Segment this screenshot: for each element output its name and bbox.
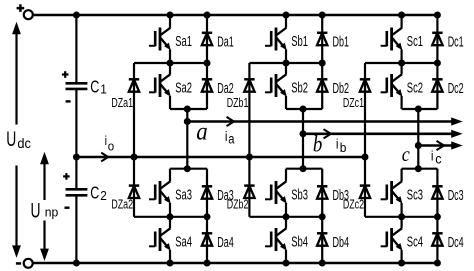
diode Dc1 <box>432 15 442 63</box>
svg-text:b: b <box>340 140 347 155</box>
transistor Sc4 <box>381 217 403 263</box>
svg-text:Sb4: Sb4 <box>291 233 308 250</box>
diode Db4 <box>317 217 327 263</box>
transistor Sa3 <box>149 169 171 217</box>
diode Db2 <box>317 63 327 109</box>
transistor Sb2 <box>265 63 287 109</box>
current arrow ib <box>324 129 332 138</box>
diode DZb2 <box>244 157 254 217</box>
wire: Sa1/Sa2 junction bracket <box>134 62 207 64</box>
svg-text:Sa2: Sa2 <box>175 79 192 96</box>
svg-text:DZc1: DZc1 <box>343 97 364 111</box>
junction dot (b lower, main) <box>283 213 290 220</box>
svg-text:DZa1: DZa1 <box>111 97 133 111</box>
junction dot (top rail / Dc1) <box>434 12 441 19</box>
label - (C2) <box>65 207 70 209</box>
junction dot (mid rail / clamp b) <box>246 154 253 161</box>
node c <box>415 142 422 149</box>
wire: neutral mid rail <box>76 156 365 159</box>
diode Dc3 <box>432 169 442 217</box>
junction: bottom rail / capacitor column <box>73 260 80 267</box>
wire: positive DC rail <box>33 14 439 17</box>
junction dot (a node bottom) <box>184 165 191 172</box>
junction dot (top rail / Sb1) <box>283 12 290 19</box>
junction dot (top rail / Sc1) <box>398 12 405 19</box>
transistor Sa4 <box>149 217 171 263</box>
diode DZa1 <box>129 63 139 157</box>
junction: top rail / capacitor column <box>73 12 80 19</box>
svg-text:dc: dc <box>17 136 31 151</box>
junction dot (b upper, diode) <box>319 60 326 67</box>
svg-text:Dc1: Dc1 <box>448 33 464 50</box>
transistor Sc2 <box>381 63 403 109</box>
svg-text:Sc1: Sc1 <box>407 33 423 50</box>
current arrow io <box>101 153 108 162</box>
transistor Sb1 <box>265 15 287 63</box>
junction dot (bottom rail / Dc4) <box>434 260 441 267</box>
junction dot (a upper, diode) <box>204 60 211 67</box>
wire: Sb2 emitter bracket <box>286 109 322 134</box>
current arrow ia <box>227 117 235 126</box>
diode Dc2 <box>432 63 442 109</box>
svg-text:c: c <box>402 143 410 167</box>
wire: Sb3/Sb4 junction bracket <box>249 216 322 218</box>
transistor Sc3 <box>381 169 403 217</box>
diode Dc4 <box>432 217 442 263</box>
wire: Sb3 collector bracket <box>286 168 322 170</box>
transistor Sb3 <box>265 169 287 217</box>
diode DZa2 <box>129 157 139 217</box>
wire: negative DC rail <box>32 262 438 265</box>
label + (C2) <box>63 173 70 180</box>
wire: node c column <box>417 146 419 169</box>
transistor Sc1 <box>381 15 403 63</box>
junction dot (top rail / Sa1) <box>167 12 174 19</box>
svg-text:Sb3: Sb3 <box>291 186 308 203</box>
wire: Sa3 collector bracket <box>170 168 207 170</box>
svg-text:U: U <box>31 199 41 223</box>
wire: Sb1/Sb2 junction bracket <box>249 62 322 64</box>
junction dot (b upper, main) <box>283 60 290 67</box>
svg-text:i: i <box>105 134 107 148</box>
junction: mid rail / capacitor column <box>73 154 80 161</box>
wire: phase b output line <box>303 130 463 138</box>
svg-text:DZb2: DZb2 <box>227 198 249 212</box>
wire: phase a output line <box>187 117 462 125</box>
diode DZc2 <box>360 157 370 217</box>
svg-text:Da4: Da4 <box>217 234 234 251</box>
junction dot (bottom rail / Db4) <box>319 260 326 267</box>
transistor Sa1 <box>149 15 171 63</box>
transistor Sb4 <box>265 217 287 263</box>
svg-text:2: 2 <box>100 189 107 203</box>
junction dot (a lower, diode) <box>204 213 211 220</box>
label - <box>16 262 21 265</box>
svg-text:1: 1 <box>100 82 107 96</box>
svg-text:b: b <box>313 131 322 157</box>
wire: node a column <box>186 122 188 169</box>
wire: node b column <box>302 134 304 169</box>
svg-text:DZc2: DZc2 <box>343 198 364 212</box>
junction dot (a lower, main) <box>167 213 174 220</box>
svg-text:U: U <box>6 127 16 151</box>
svg-text:c: c <box>435 151 442 167</box>
junction dot (bottom rail / Sa4) <box>167 260 174 267</box>
voltage arrow Udc <box>12 22 21 258</box>
transistor Sa2 <box>149 63 171 109</box>
svg-text:Dc4: Dc4 <box>448 234 464 251</box>
svg-text:Dc2: Dc2 <box>448 80 464 97</box>
junction dot (bottom rail / Sc4) <box>398 260 405 267</box>
label - (C1) <box>66 100 71 102</box>
capacitor C1 <box>66 83 88 89</box>
svg-text:a: a <box>228 131 235 146</box>
diode Da1 <box>202 15 212 63</box>
wire: Sc2 emitter bracket <box>402 109 438 146</box>
svg-text:Da1: Da1 <box>217 33 234 50</box>
svg-text:Db2: Db2 <box>333 80 350 97</box>
terminal: negative input <box>24 259 33 268</box>
junction dot (top rail / Da1) <box>204 12 211 19</box>
wire: phase c output line <box>418 141 462 149</box>
junction dot (c node bottom) <box>415 165 422 172</box>
svg-text:np: np <box>45 205 59 219</box>
junction dot (c upper, main) <box>398 60 405 67</box>
junction dot (c lower, diode) <box>434 213 441 220</box>
svg-text:Sc3: Sc3 <box>407 186 423 203</box>
junction dot (c upper, diode) <box>434 60 441 67</box>
junction dot (c node top) <box>415 106 422 113</box>
svg-text:o: o <box>108 139 115 154</box>
diode Da4 <box>202 217 212 263</box>
svg-text:Dc3: Dc3 <box>448 187 464 204</box>
svg-text:DZb1: DZb1 <box>227 97 249 111</box>
svg-text:Sc4: Sc4 <box>407 233 423 250</box>
label + <box>17 4 25 12</box>
junction dot (a node top) <box>184 106 191 113</box>
junction dot (b node bottom) <box>300 165 307 172</box>
diode Db1 <box>317 15 327 63</box>
wire: Sc3/Sc4 junction bracket <box>365 216 437 218</box>
svg-text:i: i <box>225 128 228 144</box>
diode DZc1 <box>360 63 370 157</box>
voltage arrow Unp <box>40 152 49 261</box>
svg-text:Sb1: Sb1 <box>291 33 308 50</box>
label + (C1) <box>62 71 69 78</box>
svg-text:Sb2: Sb2 <box>291 79 308 96</box>
junction dot (b node top) <box>300 106 307 113</box>
junction dot (a upper, main) <box>167 60 174 67</box>
diode DZb1 <box>244 63 254 157</box>
svg-text:Db1: Db1 <box>333 33 350 50</box>
svg-text:Sc2: Sc2 <box>407 79 423 96</box>
node a <box>184 118 191 125</box>
svg-text:DZa2: DZa2 <box>111 198 133 212</box>
svg-text:Db4: Db4 <box>333 234 350 251</box>
diode Db3 <box>317 169 327 217</box>
junction dot (top rail / Db1) <box>319 12 326 19</box>
junction dot (bottom rail / Sb4) <box>283 260 290 267</box>
svg-text:i: i <box>336 136 339 152</box>
wire: Sc3 collector bracket <box>402 168 438 170</box>
svg-text:Sa1: Sa1 <box>175 33 192 50</box>
svg-text:C: C <box>90 78 99 98</box>
svg-text:Sa3: Sa3 <box>175 186 192 203</box>
wire: Sc1/Sc2 junction bracket <box>365 62 437 64</box>
wire: DC-link column <box>75 15 77 263</box>
svg-text:C: C <box>90 184 99 204</box>
terminal: positive input <box>24 10 33 19</box>
junction dot (mid rail / clamp a) <box>131 154 138 161</box>
capacitor C2 <box>66 189 88 195</box>
svg-text:i: i <box>431 148 434 164</box>
svg-text:Sa4: Sa4 <box>175 233 192 250</box>
current arrow ic <box>437 141 445 150</box>
junction dot (c lower, main) <box>398 213 405 220</box>
junction dot (mid rail / clamp c) <box>362 154 369 161</box>
wire: Sa3/Sa4 junction bracket <box>134 216 207 218</box>
svg-text:a: a <box>196 118 208 145</box>
diode Da3 <box>202 169 212 217</box>
wire: Sa2 emitter bracket <box>170 109 207 122</box>
svg-text:Da2: Da2 <box>217 80 234 97</box>
junction dot (bottom rail / Da4) <box>204 260 211 267</box>
diode Da2 <box>202 63 212 109</box>
node b <box>300 130 307 137</box>
junction dot (b lower, diode) <box>319 213 326 220</box>
